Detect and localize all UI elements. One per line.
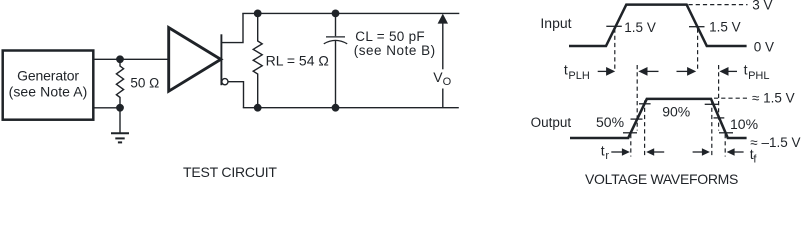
tf right arrow [693,151,703,153]
dashed output fall 10% [724,134,726,157]
svg-text:50%: 50% [596,114,624,130]
output waveform [570,99,747,138]
output fall 90% tick [705,103,719,105]
dashed output rise 10% [630,134,632,157]
tPHL right arrow [677,70,689,72]
svg-text:≈ –1.5 V: ≈ –1.5 V [750,135,800,150]
svg-text:1.5 V: 1.5 V [624,20,656,35]
generator box [3,51,94,120]
input waveform [569,5,747,46]
wire upper drain to top rail [222,13,243,42]
svg-text:VOLTAGE WAVEFORMS: VOLTAGE WAVEFORMS [585,171,738,185]
svg-text:Generator: Generator [17,68,79,84]
resistor 50 ohm [116,59,123,108]
input rising 1.5V tick [606,25,622,27]
svg-text:0 V: 0 V [754,40,774,55]
ground [119,108,121,133]
dashed input fall crossing [697,29,699,72]
wire top rail [242,12,459,14]
output rise 90% tick [639,103,651,105]
svg-text:1.5 V: 1.5 V [709,20,741,35]
svg-text:RL = 54 Ω: RL = 54 Ω [266,52,329,68]
svg-text:PLH: PLH [568,70,589,82]
transistor output stage gate bar [220,34,222,85]
node junction bottom [116,104,124,112]
svg-text:r: r [605,150,609,162]
1.5V dashed level output [714,97,748,99]
capacitor CL [335,13,337,36]
output rise 10% tick [623,132,637,134]
svg-text:50 Ω: 50 Ω [130,75,159,90]
svg-text:PHL: PHL [748,70,769,82]
svg-text:10%: 10% [730,116,758,132]
svg-text:CL = 50 pF: CL = 50 pF [355,29,425,44]
node RL top [254,10,262,18]
output rise 50% tick [631,118,643,120]
tr left arrow [646,148,654,156]
tr right arrow [611,151,622,153]
tf left arrow [727,148,735,156]
node CL bottom [332,104,340,112]
svg-text:t: t [744,62,748,78]
wire bottom rail [243,107,459,109]
svg-text:90%: 90% [662,104,690,120]
svg-text:3 V: 3 V [752,0,772,12]
svg-text:Input: Input [540,15,571,31]
svg-text:(see Note B): (see Note B) [354,43,436,58]
tPLH right arrow [598,70,608,72]
svg-text:≈ 1.5 V: ≈ 1.5 V [752,90,795,105]
op-amp buffer U1 [169,28,221,92]
3V dashed level [689,4,748,6]
dashed output rise 50% [636,65,638,131]
resistor RL [253,13,262,107]
inverting bubble [222,79,228,85]
svg-text:(see Note A): (see Note A) [9,84,88,100]
node CL top [332,10,340,18]
wire generator bottom to node [94,107,120,109]
svg-text:t: t [564,62,568,78]
dashed output fall 90% [711,101,713,157]
wire lower drain to bottom rail [228,82,244,108]
wire generator top to triangle input [94,58,168,60]
dashed output rise 90% [644,101,646,157]
dashed output fall 50% [718,65,720,131]
node junction top [116,55,124,63]
dashed input rise crossing [614,29,616,72]
VO measurement arrow [438,14,448,24]
svg-text:t: t [601,143,605,159]
tPLH left arrow [638,67,647,76]
input falling 1.5V tick [689,26,705,28]
svg-text:O: O [443,76,452,88]
tPHL left arrow [719,67,728,76]
svg-text:TEST CIRCUIT: TEST CIRCUIT [183,164,277,180]
output fall 10% tick [719,132,733,134]
node RL bottom [254,104,262,112]
output fall 50% tick [714,117,725,119]
svg-text:Output: Output [531,115,572,130]
